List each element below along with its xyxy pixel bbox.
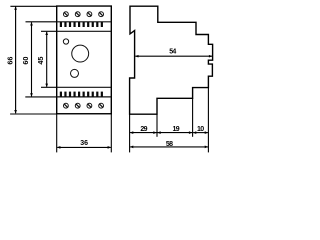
dimension line 66 with arrows [15, 7, 17, 114]
front view: bottom terminal screws (4x circle with slash) [64, 103, 104, 108]
front view: bottom vent strip lines [57, 87, 112, 97]
front view: top terminal screws (4x circle with slash) [64, 12, 104, 17]
extension line: top vent line (60) [26, 21, 57, 23]
dimension line 10 with arrows [193, 132, 208, 134]
svg-text:58: 58 [166, 141, 173, 148]
front view: top screw slashes [64, 12, 103, 16]
dimension line 36 with arrows [57, 146, 111, 148]
svg-text:66: 66 [6, 57, 15, 65]
svg-text:60: 60 [21, 57, 30, 65]
svg-text:19: 19 [173, 126, 180, 133]
front view: large dial opening [72, 45, 89, 62]
svg-text:29: 29 [140, 126, 147, 133]
label 58 [166, 141, 173, 148]
svg-text:54: 54 [169, 48, 176, 55]
dimension line 19 with arrows [158, 132, 193, 134]
front view: top vent strip lines [57, 22, 112, 32]
label 29 [140, 126, 147, 133]
front view: top vent slots [60, 22, 103, 27]
front view: small button hole [71, 69, 79, 77]
svg-text:45: 45 [36, 57, 45, 65]
svg-text:36: 36 [80, 140, 88, 147]
extension line: side right edge (10/58) [207, 88, 209, 153]
extension line: bottom edge (66) [10, 113, 57, 115]
dimension line 58 with arrows [130, 146, 208, 148]
label 60 [21, 57, 30, 65]
label 45 [36, 57, 45, 65]
extension line: bottom vent line (60) [25, 96, 56, 98]
label 66 [6, 57, 15, 65]
extension line: top edge (66) [10, 5, 56, 7]
front view: small indicator hole [63, 39, 68, 44]
label 10 [197, 126, 204, 133]
front view: bottom screw slashes [64, 104, 103, 108]
dimension line 60 with arrows [31, 22, 33, 96]
front view: bottom vent slots [60, 92, 103, 97]
side view: device profile with DIN-rail clip and terminal tabs [130, 6, 213, 114]
extension line: first step (29/19) [156, 114, 158, 137]
extension line: right edge (36) [110, 114, 112, 153]
extension line: side left edge (29/58) [129, 114, 131, 152]
dimension line 29 with arrows [130, 132, 156, 134]
extension line: second step (19/10) [192, 98, 194, 137]
label 36 [80, 140, 88, 147]
label 54 [169, 48, 176, 55]
extension line: left edge (36) [56, 114, 58, 153]
extension line: upper face line (45) [41, 30, 57, 32]
dimension line 54 with arrows [135, 55, 212, 57]
svg-text:10: 10 [197, 126, 204, 133]
label 19 [173, 126, 180, 133]
front view: device body outline [57, 6, 112, 114]
extension line: lower face line (45) [41, 86, 57, 88]
dimension line 45 with arrows [46, 32, 48, 87]
